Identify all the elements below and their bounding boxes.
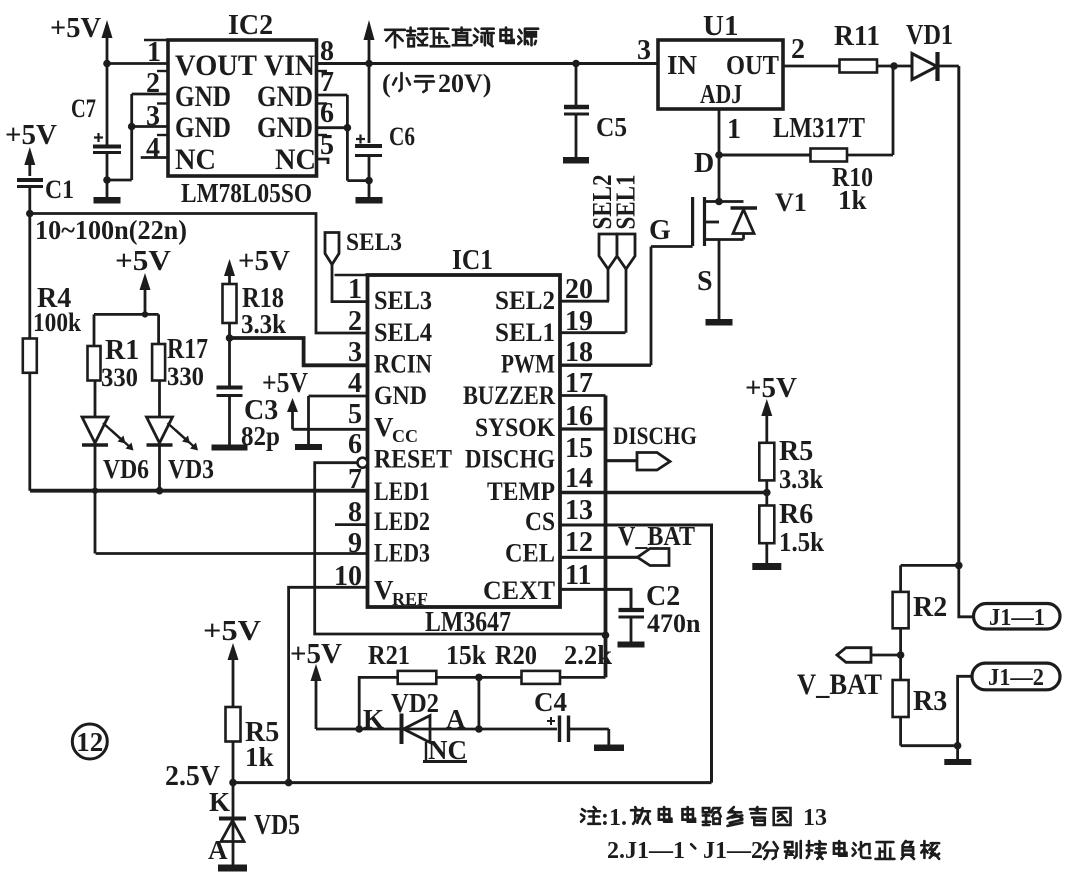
svg-text:7: 7: [320, 67, 334, 98]
svg-text:R17: R17: [167, 334, 208, 365]
connector SEL3: [325, 233, 339, 265]
connector DISCHG tag: [637, 453, 670, 471]
IC1 right pin names: [463, 286, 556, 605]
wire VIN rail: [317, 62, 659, 65]
svg-text:J1—2: J1—2: [988, 665, 1044, 691]
svg-text:C6: C6: [389, 122, 415, 151]
node VIN rail / C5: [572, 60, 580, 68]
power +5V (above R5 3.3k): [745, 372, 797, 443]
capacitor C5: [564, 64, 627, 158]
resistor R18 3.3k: [223, 283, 287, 339]
node RESET line / R20: [602, 631, 610, 639]
diode VD1: [906, 20, 953, 81]
svg-text:100k: 100k: [33, 308, 81, 337]
pin 2: [132, 68, 168, 180]
wire J1-2: [958, 676, 972, 745]
svg-text:A: A: [208, 835, 228, 865]
power +5V (reset network): [290, 639, 342, 729]
pin 6: [317, 98, 352, 132]
wire pin16 SYSOK: [560, 427, 606, 430]
node R21/R20: [475, 674, 483, 682]
resistor R20 2.2k: [495, 640, 612, 684]
wire VD2 row: [316, 728, 400, 731]
ground (pin4): [295, 444, 322, 450]
svg-text:DISCHG: DISCHG: [613, 423, 697, 450]
label 不稳压直流电源: [385, 30, 405, 48]
svg-text:IN: IN: [667, 50, 698, 80]
LED VD6: [82, 381, 149, 485]
svg-text:20V): 20V): [438, 69, 491, 98]
svg-text:GND: GND: [175, 111, 231, 144]
svg-text:SEL3: SEL3: [374, 286, 432, 315]
resistor R11: [834, 21, 880, 73]
svg-text:VOUT: VOUT: [175, 49, 257, 82]
IC1 LM3647 body: [368, 275, 561, 607]
svg-text:VIN: VIN: [264, 49, 315, 82]
wire pin3 RCIN: [230, 338, 368, 365]
svg-text:S: S: [697, 266, 713, 297]
svg-text:11: 11: [565, 560, 591, 591]
svg-text:LM78L05SO: LM78L05SO: [181, 178, 312, 208]
node VIN rail / C6: [365, 60, 373, 68]
connector V_BAT tag (CEL): [637, 549, 669, 566]
node C6 gnd junction: [365, 177, 373, 185]
resistor R17 330: [152, 334, 208, 391]
svg-text:C4: C4: [534, 687, 567, 717]
resistor R1 330: [88, 335, 140, 392]
svg-text:VD5: VD5: [254, 810, 300, 841]
svg-text:13: 13: [803, 805, 827, 831]
svg-text:LM317T: LM317T: [773, 113, 865, 144]
wire pin19 SEL1: [560, 331, 626, 334]
wire: [765, 480, 768, 505]
svg-text:16: 16: [565, 401, 593, 432]
wire pin20 SEL2: [560, 300, 609, 303]
wire pin14 TEMP: [560, 491, 767, 495]
svg-text:CEXT: CEXT: [483, 576, 555, 605]
svg-text:C5: C5: [596, 112, 627, 142]
wire pin7 LED1: [30, 489, 368, 493]
pin 3: [128, 101, 168, 132]
svg-text:VD3: VD3: [168, 454, 214, 484]
svg-text:+5V: +5V: [745, 372, 797, 404]
svg-text:5: 5: [320, 130, 334, 161]
svg-text:G: G: [649, 215, 671, 246]
note line 1: [581, 805, 827, 831]
ground (below C6): [356, 181, 383, 204]
svg-text:U1: U1: [703, 10, 738, 42]
wire 2.5V rail: [231, 781, 712, 784]
tick above pin1: [335, 274, 368, 276]
node: [475, 725, 483, 733]
svg-text:OUT: OUT: [726, 50, 779, 80]
ground (below C5): [563, 157, 589, 164]
pin 7: [317, 67, 348, 181]
power +5V (left, above C1): [5, 119, 57, 176]
power +5V (above R5 1k): [203, 615, 261, 707]
svg-text:VD2: VD2: [391, 688, 439, 718]
V1 gate wire: [649, 215, 693, 247]
wire: [436, 676, 521, 679]
svg-text:+5V: +5V: [203, 615, 261, 647]
svg-text:GND: GND: [175, 80, 231, 113]
svg-text:CEL: CEL: [505, 539, 555, 568]
pin strip rail: [604, 396, 608, 678]
ground (below C2): [618, 642, 645, 648]
connector SEL1: [617, 234, 635, 333]
wire pin18 PWM to gate: [560, 247, 651, 366]
svg-text:3: 3: [637, 35, 651, 66]
power +5V (above R18): [224, 245, 290, 284]
svg-text:5: 5: [348, 399, 362, 430]
svg-text:330: 330: [101, 363, 138, 392]
transistor V1 (MOSFET): [693, 155, 807, 246]
svg-text:6: 6: [320, 98, 334, 129]
svg-text:C1: C1: [45, 175, 74, 204]
svg-text:K: K: [209, 787, 230, 817]
diode VD2: [363, 688, 557, 744]
pin6 RESET bubble: [358, 458, 368, 468]
svg-text:DISCHG: DISCHG: [465, 445, 555, 474]
svg-text:2: 2: [791, 34, 805, 65]
ground (below C7): [94, 180, 121, 204]
wire pin17 BUZZER stub: [560, 394, 606, 397]
IC1 right pin numbers: [565, 274, 593, 591]
node R5/VD5: [229, 779, 237, 787]
node R18/C3/RCIN: [226, 334, 234, 342]
svg-text:13: 13: [565, 495, 593, 526]
svg-text:V1: V1: [775, 188, 807, 217]
svg-text:IC2: IC2: [228, 10, 273, 41]
wire right rail down: [957, 66, 960, 565]
svg-text:LED3: LED3: [374, 539, 430, 568]
svg-text:R21: R21: [368, 640, 410, 670]
svg-text:D: D: [694, 148, 714, 179]
svg-text:15: 15: [565, 433, 593, 464]
IC2 pin names: [175, 49, 316, 176]
svg-text:C7: C7: [71, 94, 96, 123]
svg-text:330: 330: [167, 362, 204, 391]
node VD6/LED1 crossing: [92, 488, 98, 494]
U1 pin names: [667, 50, 779, 109]
node C1 junction: [26, 210, 34, 218]
svg-text:SEL4: SEL4: [374, 318, 432, 347]
svg-text:GND: GND: [257, 111, 313, 144]
svg-text:4: 4: [348, 368, 362, 399]
svg-text:SEL3: SEL3: [346, 229, 402, 256]
svg-text:+5V: +5V: [5, 119, 57, 151]
svg-text:NC: NC: [428, 735, 467, 765]
svg-text:SEL1: SEL1: [495, 318, 555, 347]
capacitor C2: [619, 581, 702, 642]
svg-text:J1—1: J1—1: [989, 605, 1045, 631]
wire: [228, 323, 231, 386]
svg-text:RESET: RESET: [374, 445, 452, 474]
svg-text:+5V: +5V: [115, 245, 171, 277]
svg-text:3: 3: [348, 337, 362, 368]
svg-text:1k: 1k: [245, 742, 274, 772]
svg-text:2.J1—1: 2.J1—1: [607, 838, 685, 864]
capacitor C6: [355, 122, 415, 181]
power +5V (top left): [50, 12, 113, 64]
svg-text:15k: 15k: [446, 640, 486, 670]
svg-text:R1: R1: [105, 335, 139, 366]
svg-text:18: 18: [565, 337, 593, 368]
svg-text:12: 12: [565, 527, 593, 558]
node: [355, 725, 363, 733]
svg-text:14: 14: [565, 463, 593, 494]
ground (R3/J1-2): [944, 742, 971, 765]
node VD3/LED1: [156, 487, 164, 495]
svg-text:1k: 1k: [838, 185, 867, 215]
node TEMP/R5/R6: [763, 489, 771, 497]
wire: [901, 564, 959, 567]
ground (below C3): [212, 445, 248, 451]
svg-text:1.5k: 1.5k: [779, 527, 824, 557]
LED VD3: [147, 381, 215, 485]
svg-text:V_BAT: V_BAT: [797, 668, 882, 701]
resistor R21 15k: [368, 640, 486, 684]
wire pin8 LED2 stub: [335, 523, 368, 526]
wire: [940, 65, 959, 68]
svg-text:J1—2: J1—2: [703, 838, 763, 864]
note line 2: [607, 838, 939, 864]
svg-text:V: V: [374, 412, 394, 442]
svg-text:RCIN: RCIN: [374, 350, 432, 379]
wire pin15 DISCHG to tag: [606, 459, 638, 462]
ground (below R6): [752, 543, 781, 570]
svg-text:R3: R3: [913, 686, 947, 717]
svg-text:470n: 470n: [647, 609, 701, 638]
label NC: [423, 735, 467, 765]
connector SEL2: [599, 234, 617, 301]
node D (ADJ): [694, 148, 723, 179]
svg-text:LED1: LED1: [374, 477, 430, 506]
svg-text:A: A: [446, 704, 466, 734]
node R11/VD1/R10 junction: [890, 62, 898, 70]
svg-text:SYSOK: SYSOK: [475, 413, 556, 442]
wire to J1-1: [959, 565, 974, 616]
svg-text:NC: NC: [275, 143, 316, 176]
wire pin6 RESET: [315, 463, 606, 634]
connector V_BAT tag (divider): [837, 648, 901, 663]
svg-text:V_BAT: V_BAT: [618, 521, 695, 551]
power +5V (at Vcc): [262, 368, 308, 429]
IC1 left pin numbers: [334, 274, 362, 592]
svg-text:C2: C2: [646, 581, 680, 612]
connector J1-2: [972, 663, 1060, 691]
svg-text:CC: CC: [392, 426, 418, 446]
svg-text:R11: R11: [834, 21, 880, 52]
pin 1: [107, 37, 168, 68]
svg-text:4: 4: [146, 133, 160, 164]
svg-text:GND: GND: [257, 80, 313, 113]
svg-text:IC1: IC1: [452, 244, 493, 276]
wire: [232, 742, 235, 783]
wire pin5 Vcc: [293, 428, 368, 431]
resistor R2: [893, 565, 948, 655]
svg-text:CS: CS: [525, 507, 555, 536]
resistor R4: [23, 214, 82, 491]
power input arrow: [364, 20, 375, 143]
svg-text:TEMP: TEMP: [487, 477, 555, 506]
svg-text:K: K: [363, 704, 384, 734]
svg-text:BUZZER: BUZZER: [463, 381, 555, 410]
svg-text:REF: REF: [392, 589, 428, 609]
wire pin12 CEL to V_BAT tag: [560, 556, 637, 559]
wire: [901, 744, 959, 747]
V1 body diode: [719, 202, 757, 240]
power +5V (above R1/R17): [115, 245, 171, 314]
svg-text:R2: R2: [913, 592, 947, 623]
regulator U1 LM317T body: [658, 40, 783, 109]
wire pin11 CEXT: [560, 589, 631, 608]
resistor R5 3.3k: [759, 436, 823, 494]
node C7/IC2 gnd junction: [103, 176, 111, 184]
svg-text:2.2k: 2.2k: [564, 640, 612, 670]
svg-text:1: 1: [727, 114, 741, 145]
svg-text:R6: R6: [779, 499, 813, 530]
wire pin1 SEL3: [332, 265, 368, 302]
svg-text:SEL1: SEL1: [611, 175, 641, 230]
node R2/R3/V_BAT: [897, 651, 905, 659]
pin 5 stub: [317, 130, 335, 164]
svg-text:PWM: PWM: [501, 350, 555, 379]
wire pin2 SEL4 (to C1 node): [30, 214, 368, 334]
wire R1/R17 top bar: [94, 311, 159, 346]
wire: [347, 179, 369, 182]
node Vref/rail: [285, 779, 293, 787]
wire pin13 CS: [560, 525, 712, 783]
svg-text:LED2: LED2: [374, 507, 430, 536]
capacitor C3: [217, 388, 281, 452]
svg-text:GND: GND: [374, 381, 427, 410]
label (小于20V): [382, 69, 491, 98]
svg-text::1.: :1.: [601, 805, 627, 831]
ground (below VD5): [218, 865, 247, 872]
svg-text:+5V: +5V: [238, 245, 290, 277]
resistor R10: [719, 66, 893, 215]
IC2 LM78L05SO body: [168, 40, 317, 176]
resistor R5 1k: [226, 707, 280, 772]
svg-text:+5V: +5V: [50, 12, 101, 44]
IC1 left pin names: [374, 286, 452, 609]
figure number 12: [72, 724, 107, 759]
svg-text:10~100n(22n): 10~100n(22n): [35, 215, 187, 245]
wire pin4 GND to ground: [309, 396, 368, 444]
pin 1 / ADJ stem: [719, 109, 741, 155]
svg-text:12: 12: [76, 727, 103, 757]
svg-text:3.3k: 3.3k: [241, 309, 286, 339]
svg-text:VD1: VD1: [906, 20, 953, 51]
svg-text:R5: R5: [779, 436, 813, 467]
capacitor C4: [534, 687, 609, 742]
connector J1-1: [974, 604, 1061, 632]
resistor R6 1.5k: [759, 499, 824, 557]
svg-text:VD6: VD6: [103, 454, 149, 484]
capacitor C1: [17, 175, 74, 214]
wire mid drop: [477, 677, 480, 729]
wire: [107, 179, 132, 182]
svg-text:ADJ: ADJ: [700, 79, 742, 109]
wire pin10 Vref: [289, 587, 368, 782]
pin 4 NC stub: [141, 133, 168, 164]
wire: [877, 65, 912, 68]
svg-text:R20: R20: [495, 640, 537, 670]
svg-text:6: 6: [348, 429, 362, 460]
wire R20 to RESET node: [560, 676, 606, 679]
capacitor C7: [71, 64, 121, 181]
resistor R3: [893, 655, 948, 746]
wire R21 left drop: [359, 677, 398, 729]
diode VD5 (zener): [208, 783, 300, 865]
svg-text:NC: NC: [175, 143, 216, 176]
wire pin9 LED3: [96, 552, 368, 555]
svg-text:V: V: [374, 575, 394, 605]
V1 source: [697, 240, 733, 326]
svg-text:3.3k: 3.3k: [779, 464, 823, 494]
svg-text:SEL2: SEL2: [495, 286, 555, 315]
ground (C4): [594, 729, 624, 751]
svg-text:(: (: [382, 69, 391, 98]
node right rail / R2: [955, 562, 963, 570]
pin 2: [783, 34, 840, 66]
